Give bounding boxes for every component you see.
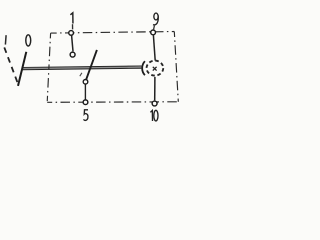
actuator bridge bar	[22, 66, 141, 70]
terminal 10 circle on border	[152, 101, 157, 106]
wire lamp to terminal 10	[154, 77, 156, 101]
terminal 5 stem	[84, 84, 86, 99]
lamp dashed circle	[147, 61, 164, 76]
terminal 1 circle on border	[69, 31, 74, 36]
terminal 5 pivot circle	[83, 80, 88, 85]
lever position label 0	[26, 35, 31, 46]
lever alternate position (dashed)	[4, 47, 18, 85]
terminal 10 label	[150, 110, 158, 121]
enclosure right border (dash-dot)	[174, 32, 178, 102]
terminal 9 label	[153, 13, 158, 25]
stray tick near pivot	[80, 73, 82, 76]
lever (solid, position 0)	[18, 52, 26, 86]
lever position mark I	[4, 35, 7, 44]
enclosure left border (dash-dot)	[47, 33, 50, 102]
terminal 1 stub above border	[72, 24, 74, 29]
terminal 5 circle on border	[83, 100, 88, 105]
wire terminal 9 to lamp	[153, 35, 155, 60]
lamp X mark	[153, 67, 157, 71]
terminal 9 circle on border	[151, 30, 156, 35]
terminal 1 inner stem	[72, 36, 73, 52]
enclosure top border (dash-dot)	[51, 32, 175, 34]
terminal 5 label	[84, 110, 88, 121]
contact arm of terminal 5	[86, 50, 97, 80]
enclosure bottom border (dash-dot)	[47, 101, 178, 104]
terminal 1 fixed contact circle	[70, 52, 75, 57]
bar cup arc on lamp	[142, 61, 145, 75]
terminal 9 stub	[153, 26, 156, 30]
terminal 1 label	[70, 13, 73, 24]
